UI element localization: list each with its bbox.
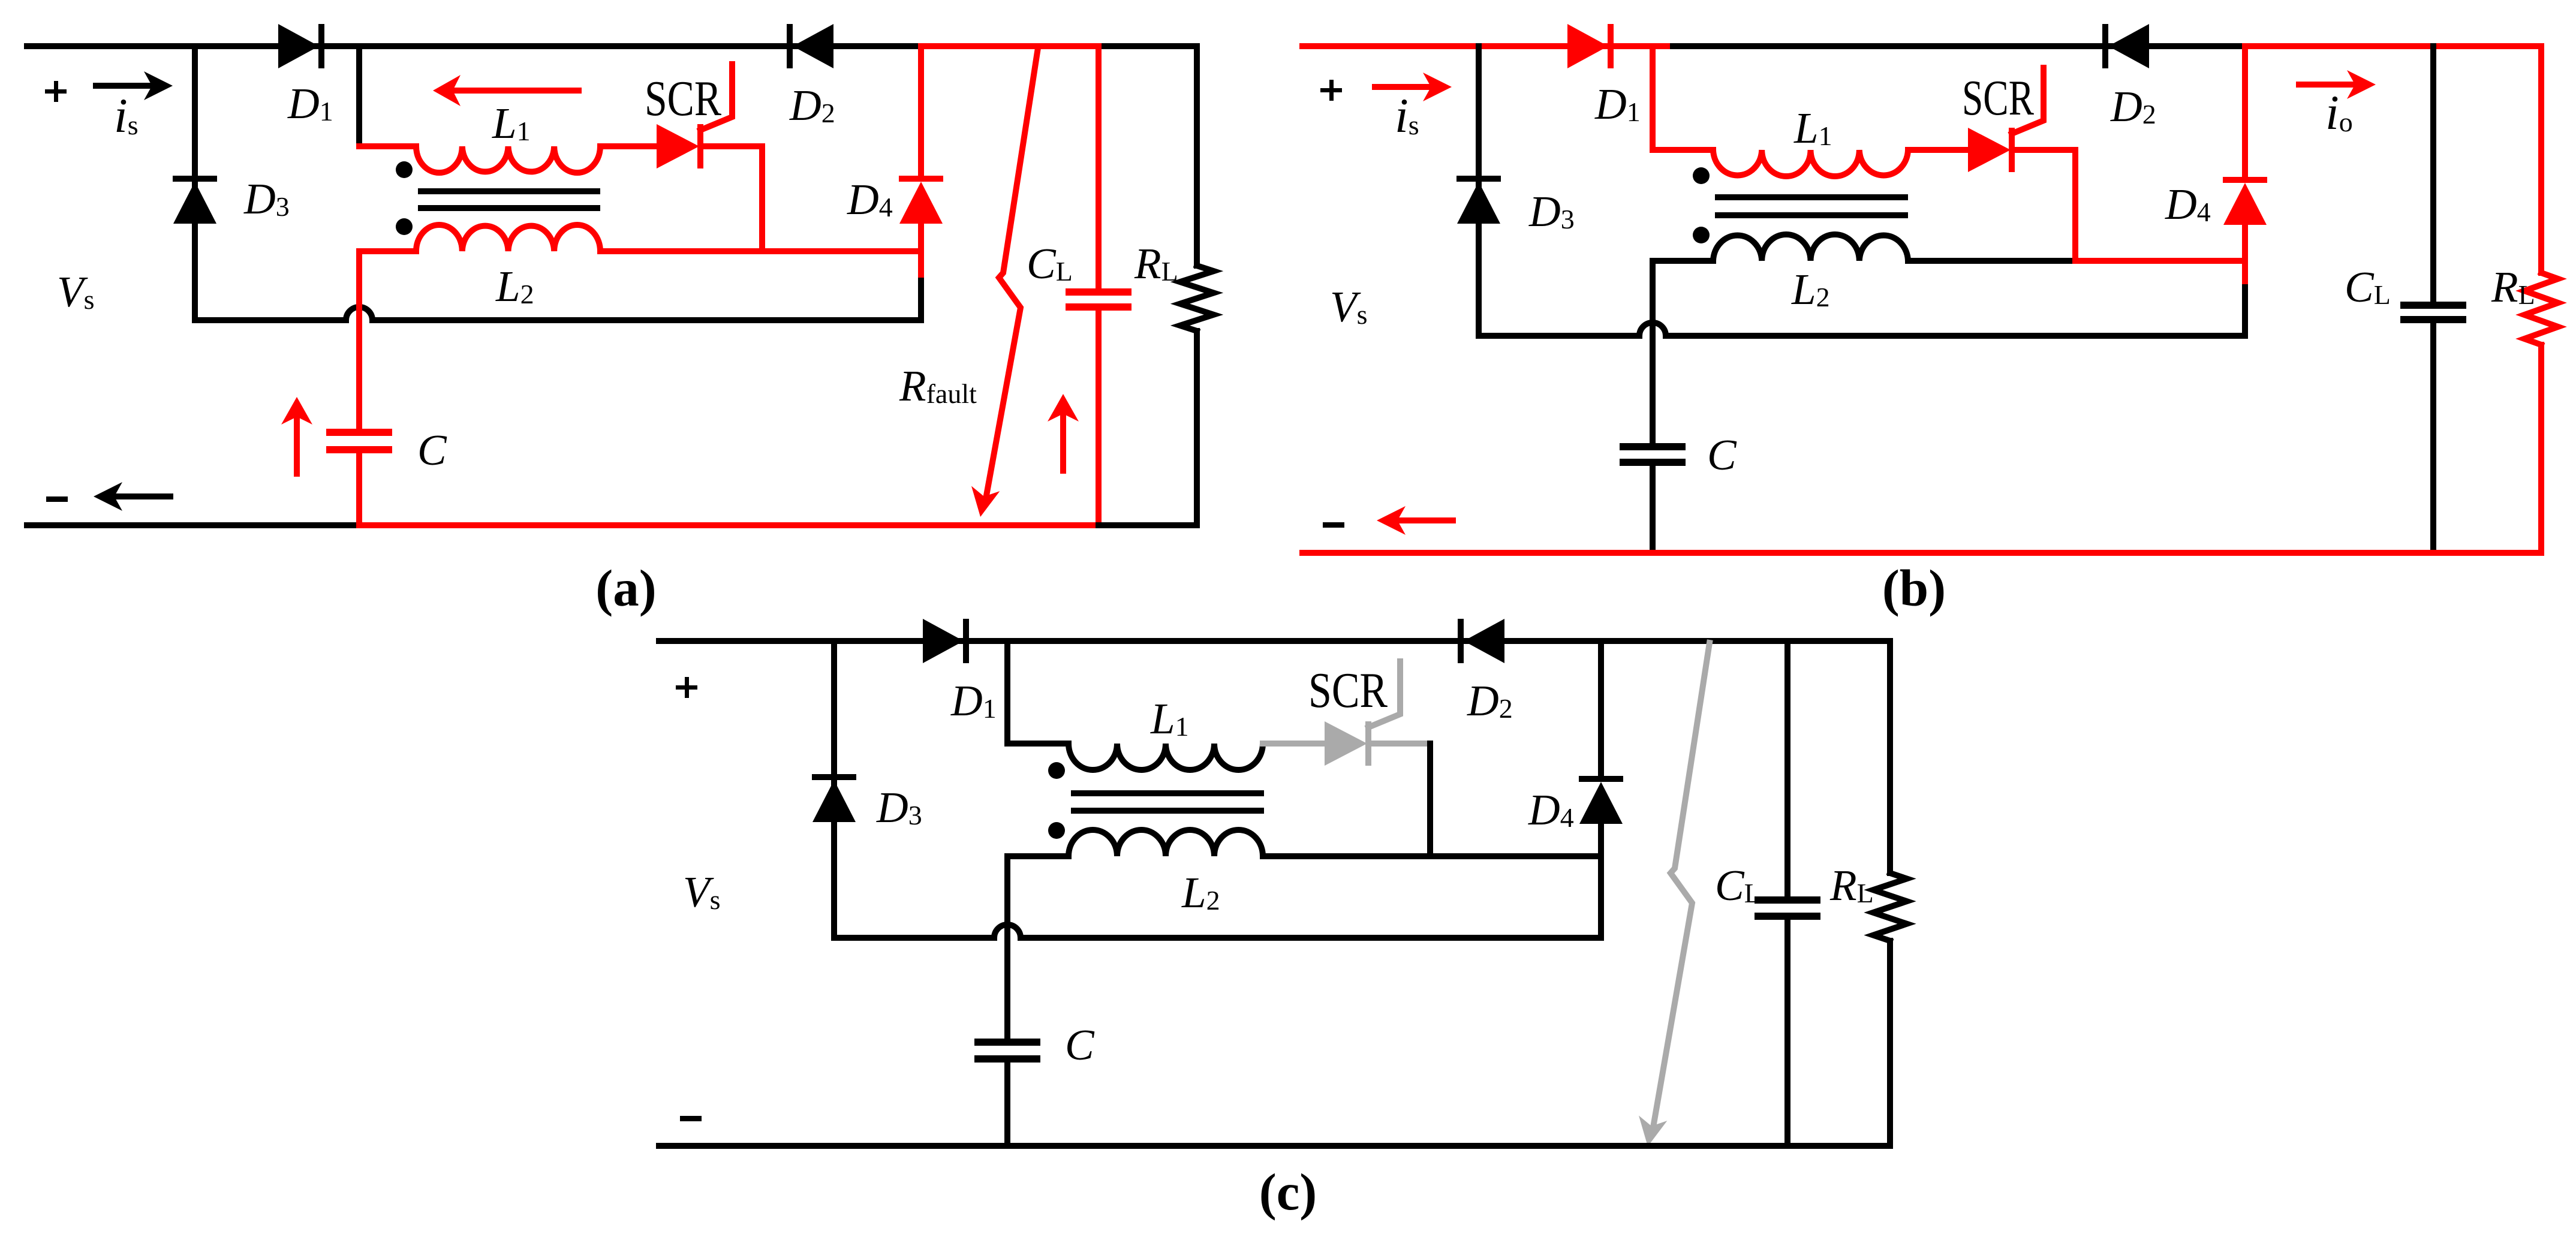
thyristor SCR (panel b) <box>1968 128 2011 172</box>
svg-text:io: io <box>2325 85 2353 140</box>
wire D4 top lead (panel c) <box>1598 641 1604 776</box>
wire C branch upper (panel a) <box>356 251 362 429</box>
svg-text:D3: D3 <box>243 174 290 223</box>
bottom rail middle red (panel a) <box>359 522 1099 528</box>
wire C branch lower (panel a) <box>356 453 362 525</box>
svg-text:CL: CL <box>2345 263 2391 311</box>
wire L2 to D4 horizontal (panel c) <box>1263 853 1601 859</box>
wire D4 bottom lead red (panel b) <box>2242 225 2248 287</box>
minus terminal (panel a) <box>46 496 68 502</box>
arrow io (panel b) <box>2299 82 2355 88</box>
svg-text:C: C <box>1707 431 1737 479</box>
wire L2 left lead (panel c) <box>1007 853 1069 859</box>
wire C branch upper (panel c) <box>1004 856 1010 1039</box>
inductor L1 (panel b) <box>1713 150 1908 176</box>
wire L1 left lead (panel a) <box>359 143 416 149</box>
svg-text:C: C <box>1065 1021 1095 1069</box>
wire hop over C branch (panel b) <box>1639 323 1666 336</box>
svg-text:RL: RL <box>1829 861 1874 910</box>
wire D4 top lead (panel b) <box>2242 46 2248 177</box>
wire CL top lead (panel c) <box>1784 641 1790 896</box>
resistor RL (panel c) <box>1873 873 1907 941</box>
wire CL top lead (panel b) <box>2430 46 2436 302</box>
polarity dot upper (panel c) <box>1048 762 1065 779</box>
panel (b) top rail middle segment (black) <box>1673 43 2245 49</box>
svg-text:(a): (a) <box>595 559 656 617</box>
wire inner bottom right of hop (panel a) <box>372 317 921 323</box>
wire SCR cathode drop (panel b) <box>2072 150 2078 261</box>
inductor L2 (panel b) <box>1713 234 1908 261</box>
diode D3 (panel c) <box>812 774 856 780</box>
inductor L1 (panel c) <box>1069 744 1263 770</box>
svg-text:L2: L2 <box>1181 868 1220 917</box>
wire hop over C branch (panel a) <box>346 307 372 320</box>
wire hop over C branch (panel c) <box>994 925 1021 938</box>
svg-text:L2: L2 <box>1791 265 1830 314</box>
panel (a) top rail middle segment D4-to-CL (red) <box>921 43 1099 49</box>
wire right edge top (panel c) <box>1887 641 1893 873</box>
polarity dot lower (panel b) <box>1693 227 1710 243</box>
wire right edge top (panel a) <box>1194 46 1200 266</box>
svg-text:SCR: SCR <box>645 71 721 127</box>
wire D3 branch vertical (panel a) <box>192 46 198 320</box>
fault path grey (panel c) <box>1653 643 1710 1127</box>
wire right edge bottom (panel a) <box>1194 331 1200 525</box>
svg-text:is: is <box>114 88 139 143</box>
plus terminal (panel c) <box>676 685 697 690</box>
polarity dot lower (panel a) <box>396 218 413 235</box>
wire C branch lower (panel b) <box>1650 466 1656 553</box>
transformer core (panel c) <box>1071 790 1264 796</box>
svg-text:D3: D3 <box>1528 187 1575 236</box>
bottom rail right black (panel a) <box>1099 522 1197 528</box>
svg-text:L1: L1 <box>492 99 531 148</box>
wire SCR anode (panel b) <box>1908 147 1971 153</box>
svg-text:D2: D2 <box>789 81 835 130</box>
panel (a) top rail right segment (black) <box>1099 43 1197 49</box>
svg-text:D2: D2 <box>2110 82 2156 131</box>
wire CL bottom lead (panel a) <box>1096 311 1102 525</box>
wire D4 bottom lead (panel c) <box>1598 824 1604 938</box>
svg-text:CL: CL <box>1027 239 1073 288</box>
svg-text:(c): (c) <box>1259 1163 1317 1221</box>
diode D4 (panel a) <box>899 176 943 182</box>
wire CL top lead (panel a) <box>1096 46 1102 288</box>
arrow is (panel b) <box>1375 84 1431 90</box>
svg-text:D2: D2 <box>1467 676 1513 725</box>
thyristor SCR (panel c) <box>1325 721 1367 766</box>
svg-text:is: is <box>1395 88 1419 143</box>
wire CL bottom lead (panel c) <box>1784 920 1790 1146</box>
plus terminal (panel b) <box>1320 88 1342 92</box>
wire SCR anode (panel a) <box>600 143 660 149</box>
wire L2 to SCR-foot horizontal (panel b) <box>1908 258 2075 264</box>
wire D4 bottom lead black (panel b) <box>2242 287 2248 336</box>
capacitor C (panel c) <box>974 1039 1040 1046</box>
inductor L2 (panel c) <box>1069 830 1263 856</box>
wire D4 top lead (panel a) <box>918 46 924 176</box>
wire L1 left lead (panel b) <box>1653 147 1713 153</box>
wire CL bottom lead (panel b) <box>2430 323 2436 553</box>
wire C branch upper (panel b) <box>1650 261 1656 444</box>
wire D3 branch vertical (panel b) <box>1476 46 1482 336</box>
wire SCR anode grey (panel c) <box>1263 741 1328 747</box>
wire SCR-foot to D4 horizontal (panel b) <box>2075 258 2245 264</box>
wire D4 bottom lead red (panel a) <box>918 224 924 281</box>
svg-text:D4: D4 <box>847 175 893 224</box>
svg-text:CL: CL <box>1715 861 1761 910</box>
plus terminal (panel a) <box>45 89 67 94</box>
svg-text:D1: D1 <box>1594 80 1641 128</box>
fault path Rfault (panel a) <box>986 48 1038 499</box>
diode D2 (panel c) <box>1458 619 1464 663</box>
svg-text:(b): (b) <box>1882 559 1946 617</box>
wire D3 branch vertical (panel c) <box>831 641 837 938</box>
svg-text:SCR: SCR <box>1308 663 1388 718</box>
diode D1 (panel a) <box>278 24 319 68</box>
svg-text:Rfault: Rfault <box>899 362 977 410</box>
diode D1 (panel c) <box>923 619 964 663</box>
svg-text:D1: D1 <box>287 79 333 128</box>
diode D2 (panel a) <box>787 24 793 68</box>
wire right edge top (panel b) <box>2538 46 2544 273</box>
diode D1 (panel b) <box>1567 24 1608 68</box>
panel (a) top rail left segment (black) <box>27 43 921 49</box>
wire SCR cathode (panel a) <box>705 143 762 149</box>
resistor RL (panel a) <box>1180 266 1214 331</box>
wire C branch lower (panel c) <box>1004 1063 1010 1146</box>
svg-text:D3: D3 <box>876 783 922 832</box>
wire inner bottom left of hop (panel b) <box>1479 333 1639 339</box>
panel (b) top rail right segment (red) <box>2245 43 2541 49</box>
diode D3 (panel b) <box>1456 176 1501 182</box>
panel (c) top rail <box>659 638 1890 644</box>
bottom rail (panel c) <box>659 1143 1890 1149</box>
wire L1 left lead (panel c) <box>1007 741 1069 747</box>
wire D4 bottom lead black (panel a) <box>918 281 924 320</box>
wire SCR cathode drop black (panel c) <box>1427 744 1433 856</box>
capacitor CL (panel c) <box>1755 896 1820 904</box>
wire L2 to D4 horizontal (panel a) <box>600 248 921 254</box>
wire L1 drop from top rail (panel b) <box>1650 46 1656 150</box>
red arrow up near CL (panel a) <box>1060 413 1066 471</box>
red arrow up at C (panel a) <box>294 416 300 474</box>
wire inner bottom right of hop (panel c) <box>1021 935 1601 941</box>
arrow return current (panel b) <box>1397 517 1453 523</box>
diode D2 (panel b) <box>2102 24 2108 68</box>
diode D4 (panel b) <box>2223 177 2267 183</box>
wire L1 drop from top rail (panel a) <box>356 46 362 146</box>
svg-text:L1: L1 <box>1793 104 1832 152</box>
wire SCR cathode drop (panel a) <box>759 146 765 251</box>
svg-text:D1: D1 <box>950 676 997 725</box>
wire inner bottom right of hop (panel b) <box>1666 333 2245 339</box>
diode D4 (panel c) <box>1579 776 1623 782</box>
inductor L1 (panel a) <box>416 146 600 173</box>
wire inner bottom left of hop (panel a) <box>195 317 346 323</box>
polarity dot lower (panel c) <box>1048 822 1065 839</box>
svg-text:L1: L1 <box>1150 694 1189 743</box>
arrow is (panel a) <box>96 83 152 89</box>
wire L2 left lead (panel a) <box>359 248 416 254</box>
red arrow above L1 (panel a) <box>452 88 579 94</box>
polarity dot upper (panel b) <box>1693 167 1710 184</box>
svg-text:C: C <box>417 426 447 474</box>
transformer core (panel b) <box>1715 194 1908 200</box>
capacitor CL (panel a) <box>1066 288 1131 296</box>
polarity dot upper (panel a) <box>396 161 413 178</box>
wire L1 drop from top rail (panel c) <box>1004 641 1010 744</box>
wire right edge bottom (panel b) <box>2538 345 2544 553</box>
bottom rail (panel b) <box>1302 550 2541 556</box>
minus terminal (panel c) <box>680 1116 702 1121</box>
wire right edge bottom (panel c) <box>1887 941 1893 1146</box>
svg-text:D4: D4 <box>2165 180 2211 228</box>
wire SCR cathode (panel b) <box>2017 147 2075 153</box>
diode D3 (panel a) <box>173 176 217 182</box>
minus terminal (panel b) <box>1323 522 1344 528</box>
svg-text:SCR: SCR <box>1962 70 2034 126</box>
resistor RL (panel b) <box>2524 273 2558 345</box>
wire SCR cathode grey (panel c) <box>1373 741 1430 747</box>
capacitor CL (panel b) <box>2400 302 2466 309</box>
capacitor C (panel b) <box>1620 443 1686 450</box>
arrow return current (panel a) <box>114 493 170 499</box>
thyristor SCR (panel a) <box>657 124 699 168</box>
svg-text:Vs: Vs <box>1330 282 1368 331</box>
svg-text:Vs: Vs <box>683 868 721 916</box>
svg-text:D4: D4 <box>1528 785 1574 834</box>
inductor L2 (panel a) <box>416 225 600 251</box>
svg-text:RL: RL <box>2491 263 2535 311</box>
bottom rail left black (panel a) <box>27 522 359 528</box>
svg-text:Vs: Vs <box>57 267 95 316</box>
svg-text:RL: RL <box>1134 239 1178 288</box>
svg-text:L2: L2 <box>495 262 534 311</box>
wire inner bottom left of hop (panel c) <box>834 935 994 941</box>
capacitor C (panel a) <box>326 429 392 436</box>
panel (b) top rail left segment (red) <box>1302 43 1673 49</box>
transformer core (panel a) <box>418 188 600 194</box>
wire L2 left lead (panel b) <box>1653 258 1713 264</box>
